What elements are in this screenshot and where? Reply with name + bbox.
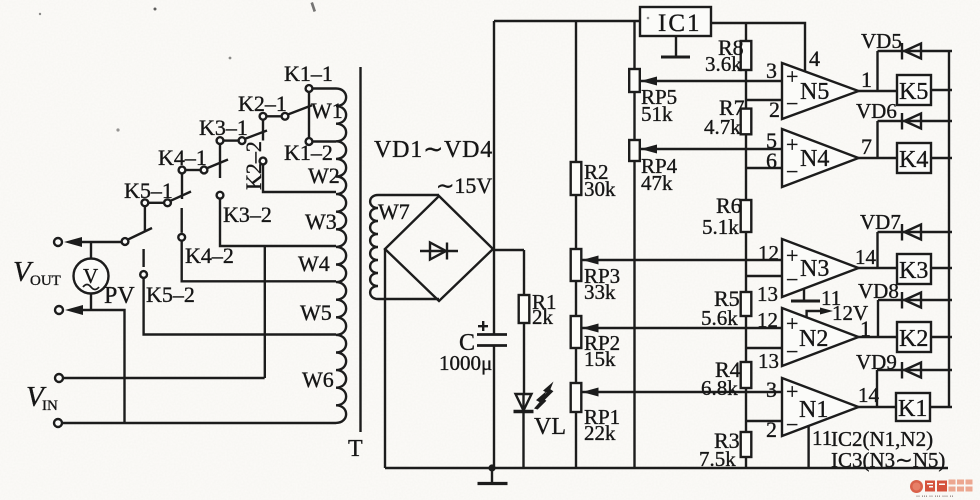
- switch selector arm: [128, 228, 152, 240]
- wire VD9 to N1 output: [876, 370, 878, 407]
- wire VD7 to N3 output: [876, 232, 878, 268]
- wire R6-R5 junction bus: [745, 232, 747, 292]
- wire R4-R3 junction bus: [745, 388, 747, 432]
- relay K2: [897, 322, 931, 352]
- svg-text:3: 3: [766, 58, 777, 83]
- wiper arrow RP5 to N5 pin3: [641, 80, 782, 82]
- relay K3: [897, 254, 931, 284]
- wire IC1 to N5 pin4: [711, 23, 805, 71]
- wiper arrow RP2 to N2 pin12: [582, 327, 782, 329]
- switch K5-1 arm: [171, 192, 192, 201]
- resistor R8: [741, 41, 752, 70]
- resistor R6: [741, 200, 752, 232]
- svg-text:4.7k: 4.7k: [704, 115, 741, 139]
- svg-text:W6: W6: [302, 367, 334, 392]
- svg-text:2: 2: [769, 97, 780, 122]
- svg-text:33k: 33k: [584, 280, 616, 304]
- wire N3 output: [859, 267, 898, 269]
- switch K2-1 arm: [289, 105, 313, 114]
- switch K5-1 contacts: [142, 199, 149, 206]
- resistor R5: [741, 292, 752, 316]
- wire N4 pin6 from R7/R6 junction: [746, 167, 782, 169]
- svg-text:1000μ: 1000μ: [439, 351, 492, 375]
- svg-text:13: 13: [757, 282, 778, 306]
- wiper arrow RP1 to N1 pin3: [582, 391, 782, 393]
- wire RP1 to ground rail: [575, 412, 577, 468]
- svg-text:IN: IN: [42, 398, 58, 414]
- svg-text:3.6k: 3.6k: [705, 52, 742, 76]
- wire W7 top to bridge AC+: [378, 194, 439, 196]
- wire K5 bus: [144, 206, 146, 232]
- diode VD5: [861, 29, 952, 60]
- wire top rail from +V to IC1: [494, 20, 640, 22]
- arrow VOUT+: [64, 237, 82, 247]
- diode VD8: [858, 279, 952, 309]
- svg-text:+: +: [786, 311, 798, 336]
- svg-text:VD5: VD5: [861, 29, 902, 53]
- svg-text:W7: W7: [378, 199, 410, 224]
- svg-text:OUT: OUT: [30, 273, 61, 289]
- op-amp N1: [782, 378, 859, 436]
- contact K2-2: [260, 158, 267, 165]
- svg-text:T: T: [348, 436, 363, 462]
- wire N5 output: [859, 90, 898, 92]
- svg-text:11: 11: [812, 426, 832, 450]
- bridge rectifier VD1-VD4 diamond: [385, 196, 493, 301]
- wire VD8 to N2 output: [877, 300, 879, 337]
- wire N1 pin 11 to ground rail: [807, 425, 809, 468]
- svg-text:K4: K4: [899, 147, 928, 173]
- contact K4-2: [178, 234, 185, 241]
- svg-text:4: 4: [809, 46, 820, 71]
- potentiometer RP3: [571, 249, 582, 281]
- svg-text:−: −: [786, 159, 798, 184]
- wire K3-2 down and right to W3/W4 tap: [220, 199, 336, 246]
- diode VD7: [860, 210, 952, 241]
- op-amp N4: [782, 129, 859, 187]
- svg-text:3: 3: [766, 377, 777, 402]
- svg-text:6: 6: [766, 148, 777, 173]
- resistor R7: [741, 109, 752, 135]
- svg-text:12: 12: [758, 241, 779, 265]
- svg-text:∼15V: ∼15V: [436, 173, 492, 198]
- switch K4-1 arm: [208, 160, 229, 169]
- wire VOUT+ to selector arm: [78, 241, 122, 243]
- switch K2-1 contacts: [260, 113, 267, 120]
- relay K1: [896, 393, 930, 421]
- svg-text:+: +: [786, 243, 798, 268]
- ground symbol: [491, 468, 493, 483]
- wire N2 output: [859, 336, 898, 338]
- svg-text:K5–2: K5–2: [146, 282, 195, 307]
- wire RP5 chain top: [633, 21, 635, 69]
- wire K4-2 down and right to W4/W5 tap: [182, 241, 336, 282]
- wire N3 pin13 from R6/R5 junction: [746, 275, 782, 277]
- wiper arrow RP3 to N3 pin12: [582, 259, 782, 261]
- wire K5-2 arm segment: [142, 249, 144, 267]
- node selector arm pivot: [122, 238, 129, 245]
- svg-text:−: −: [786, 91, 798, 116]
- wire VIN+ to riser: [63, 377, 265, 379]
- wire R2 chain top: [575, 21, 577, 162]
- arrow VOUT-: [65, 305, 83, 315]
- contact K3-2: [217, 192, 224, 199]
- svg-text:14: 14: [855, 245, 877, 269]
- terminal VIN-: [54, 419, 62, 427]
- wire N1 pin2 from R4/R3 junction: [746, 420, 782, 422]
- N3 pin 11 ground mark: [803, 289, 805, 302]
- svg-text:−: −: [786, 412, 798, 437]
- wiper arrow RP4 to N4 pin5: [641, 148, 782, 150]
- svg-text:K1: K1: [898, 396, 927, 422]
- wire R2 to RP3: [575, 195, 577, 249]
- svg-text:IC1: IC1: [658, 10, 702, 37]
- wire K3 bus: [219, 144, 221, 178]
- svg-text:VD7: VD7: [860, 210, 901, 234]
- svg-text:W5: W5: [300, 300, 332, 325]
- svg-text:N1: N1: [799, 397, 828, 423]
- contact K1-2: [306, 138, 313, 145]
- wire R1 to VL: [523, 323, 525, 394]
- svg-text:N2: N2: [799, 326, 828, 352]
- wire K1 bus: [308, 92, 310, 138]
- IC1 ground stub: [675, 36, 677, 56]
- svg-text:47k: 47k: [641, 171, 673, 195]
- potentiometer RP5: [629, 69, 640, 92]
- wire RP3 to RP2: [575, 281, 577, 316]
- wire VD6 to N4 output: [876, 121, 878, 158]
- terminal VOUT+: [54, 238, 62, 246]
- contact K1-1: [306, 85, 313, 92]
- svg-text:VD6: VD6: [856, 99, 897, 123]
- svg-text:1: 1: [861, 67, 872, 92]
- wire K2 to +12V rail: [931, 336, 952, 338]
- svg-text:5.6k: 5.6k: [701, 306, 738, 330]
- wire bridge left vertex down to ground rail: [384, 249, 386, 468]
- ground junction dot: [488, 464, 495, 471]
- wire R chain top: [745, 23, 747, 41]
- svg-text:K5: K5: [899, 79, 928, 105]
- potentiometer RP1: [571, 383, 582, 412]
- op-amp N2: [782, 308, 859, 366]
- N2 +12V supply arrow: [807, 311, 825, 318]
- wire VIN- to winding W6 bottom: [62, 422, 336, 424]
- capacitor C plates: [477, 333, 507, 336]
- wire RP4 to ground rail: [633, 161, 635, 468]
- svg-text:PV: PV: [104, 283, 135, 309]
- relay K5: [897, 75, 931, 105]
- wire R5-R4 junction bus: [745, 316, 747, 362]
- wire K4-2 arm segment: [180, 208, 182, 233]
- svg-text:7: 7: [861, 134, 872, 159]
- relay K4: [897, 143, 931, 173]
- svg-text:7.5k: 7.5k: [699, 447, 736, 471]
- diode VD9: [856, 350, 952, 379]
- wire +V rail vertical: [493, 21, 495, 335]
- wire K5-2 down and right to W5/W6 tap: [144, 278, 336, 335]
- wire N5 pin2 from R8/R7 junction: [746, 99, 782, 101]
- wire N1 output: [859, 406, 896, 408]
- wire K2 bus: [262, 120, 264, 141]
- svg-text:15k: 15k: [584, 347, 616, 371]
- wire K1-2 to W1/W2 tap: [312, 140, 336, 142]
- svg-text:N5: N5: [800, 79, 829, 105]
- svg-text:K1–2: K1–2: [284, 140, 333, 165]
- wire K3 to +12V rail: [931, 267, 952, 269]
- wire R1 top lead: [523, 250, 525, 295]
- bridge inner diode symbol: [420, 243, 458, 260]
- svg-text:·· ··· ·· ··· ··· ··: ·· ··· ·· ··· ··· ··: [916, 494, 953, 500]
- resistor R1: [519, 295, 530, 323]
- wire K5 to +12V rail: [931, 89, 952, 91]
- switch K3-1 arm: [246, 131, 268, 139]
- wire K1-1 to winding top tap: [312, 87, 336, 89]
- potentiometer RP2: [571, 316, 582, 348]
- svg-text:IC3(N3∼N5): IC3(N3∼N5): [831, 448, 945, 472]
- ground rail bottom: [385, 467, 948, 469]
- svg-text:K2: K2: [899, 326, 928, 352]
- wire K4 bus: [181, 173, 183, 199]
- svg-text:K3: K3: [899, 258, 928, 284]
- transformer secondary winding W7: [370, 195, 378, 299]
- wire K2-2 down and right to W2/W3 tap: [263, 164, 336, 192]
- svg-text:VL: VL: [534, 414, 566, 440]
- svg-text:+: +: [786, 132, 798, 157]
- capacitor C polarity +: [478, 321, 488, 331]
- transformer core line: [359, 67, 361, 432]
- LED VL light arrows: [541, 382, 554, 401]
- svg-text:K1–1: K1–1: [284, 61, 333, 86]
- svg-text:W4: W4: [298, 251, 330, 276]
- resistor R2: [571, 162, 582, 195]
- svg-text:30k: 30k: [584, 177, 616, 201]
- wire R7-R6 junction bus: [745, 134, 747, 200]
- svg-text:−: −: [786, 339, 798, 364]
- svg-text:12: 12: [757, 308, 778, 332]
- contact K5-2: [140, 271, 147, 278]
- terminal VOUT-: [55, 306, 63, 314]
- svg-text:−: −: [786, 267, 798, 292]
- wire N4 output: [859, 157, 898, 159]
- wire RP2 to RP1: [575, 348, 577, 383]
- scan noise specks: [154, 8, 157, 11]
- wire VD5 to N5 output: [876, 51, 878, 91]
- wire VOUT-: [79, 310, 125, 423]
- svg-text:+: +: [786, 379, 798, 404]
- svg-text:5.1k: 5.1k: [702, 215, 739, 239]
- switch K3-1 contacts: [217, 137, 224, 144]
- svg-text:6.8k: 6.8k: [701, 376, 738, 400]
- svg-text:2k: 2k: [532, 305, 554, 329]
- svg-text:12V: 12V: [832, 301, 868, 325]
- svg-text:W1: W1: [311, 98, 343, 123]
- wire N2 pin13 from R5/R4 junction: [746, 347, 782, 349]
- wire VL to ground rail: [522, 412, 524, 469]
- wire R8-R7 junction bus: [745, 70, 747, 109]
- wire bridge DC+ to R1: [494, 249, 524, 251]
- wire VIN+ riser to W5/W6 tap: [264, 246, 266, 378]
- svg-text:2: 2: [766, 417, 777, 442]
- potentiometer RP4: [629, 140, 640, 161]
- svg-text:N4: N4: [800, 146, 829, 172]
- svg-text:W2: W2: [308, 163, 340, 188]
- svg-text:51k: 51k: [641, 102, 673, 126]
- terminal VIN+: [55, 374, 63, 382]
- resistor R3: [741, 432, 752, 457]
- wire W7 bottom to bridge AC-: [378, 298, 439, 300]
- svg-text:22k: 22k: [584, 421, 616, 445]
- wire RP5 to RP4: [633, 92, 635, 140]
- switch K4-1 contacts: [179, 167, 186, 174]
- op-amp N5: [782, 63, 859, 119]
- diode VD6: [856, 99, 952, 130]
- svg-text:+: +: [786, 64, 798, 89]
- svg-text:VD1∼VD4: VD1∼VD4: [374, 137, 493, 163]
- voltmeter PV: [74, 242, 109, 310]
- op-amp N3: [782, 239, 859, 297]
- LED VL: [514, 394, 534, 412]
- svg-text:W3: W3: [305, 209, 337, 234]
- wire K4 to +12V rail: [931, 157, 952, 159]
- +12V relay rail: [948, 51, 950, 407]
- svg-text:13: 13: [758, 349, 779, 373]
- IC1 ground bar: [661, 56, 690, 59]
- wire K1 to +12V rail: [930, 406, 952, 408]
- wire R3 to ground rail: [745, 457, 747, 468]
- svg-text:K3–2: K3–2: [223, 202, 272, 227]
- svg-text:N3: N3: [800, 256, 829, 282]
- resistor R4: [741, 362, 752, 388]
- watermark logo: [910, 480, 973, 500]
- transformer T primary winding W1-W6: [336, 89, 346, 423]
- IC U-IC1 box: [640, 7, 711, 36]
